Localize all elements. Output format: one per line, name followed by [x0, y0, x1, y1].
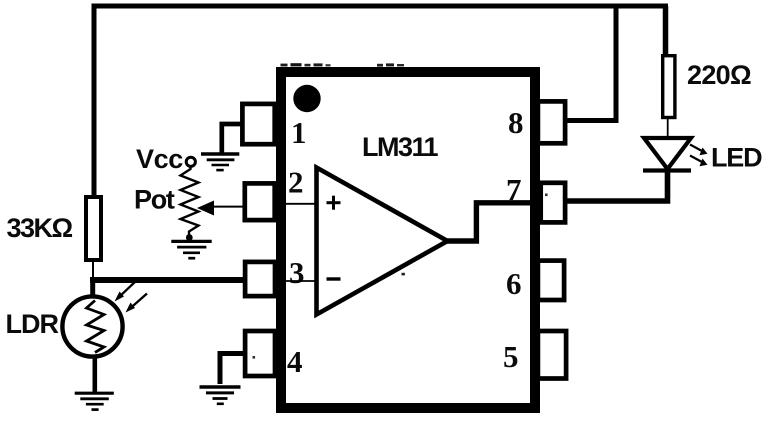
wire: pin 1 to ground — [222, 124, 243, 153]
op-amp comparator triangle — [317, 168, 448, 315]
pin 1 stub — [242, 104, 274, 144]
svg-text:3: 3 — [289, 255, 305, 290]
LDR light arrow 2 — [126, 294, 148, 313]
pin 5 stub — [538, 331, 566, 379]
svg-text:LM311: LM311 — [362, 132, 439, 162]
wire: LED cathode down and left to pin 7 — [566, 171, 668, 201]
pin 2 stub — [245, 183, 275, 220]
pin 7 stub — [541, 183, 565, 223]
speck inside pin 7 stub — [545, 194, 548, 197]
wire: R2 bottom to LED anode — [667, 117, 669, 138]
LED light arrow 1 — [690, 145, 708, 156]
svg-text:5: 5 — [503, 339, 519, 374]
svg-text:Vcc: Vcc — [136, 144, 183, 174]
LDR zigzag element — [87, 301, 105, 353]
wire: pin 2 to op-amp non-inverting input — [286, 203, 317, 205]
ground: at pin 1 — [201, 154, 239, 170]
svg-text:4: 4 — [287, 344, 303, 379]
LED D1 triangle — [644, 138, 691, 169]
svg-text:2: 2 — [288, 165, 304, 200]
svg-text:Pot: Pot — [134, 185, 175, 215]
potentiometer RV1 zigzag — [181, 167, 199, 237]
Vcc terminal circle — [186, 157, 195, 166]
wire: pin 3 to op-amp inverting input — [286, 280, 317, 282]
LED light arrow 2 — [690, 156, 708, 167]
wire: op-amp output to pin 7 — [446, 203, 532, 241]
LED cathode bar — [643, 168, 691, 172]
svg-text:220Ω: 220Ω — [687, 60, 751, 90]
wire: wiper to pin 2 — [212, 206, 243, 208]
wire: LDR bottom to ground — [93, 355, 98, 392]
speck inside IC — [402, 273, 405, 276]
node: pot bottom dot — [186, 234, 193, 241]
pin 3 stub — [245, 262, 275, 296]
svg-text:6: 6 — [506, 266, 522, 301]
ground: below LDR — [75, 393, 114, 409]
op-amp minus input mark — [327, 277, 341, 280]
pin 8 stub — [538, 101, 565, 143]
resistor R2 220 ohm — [663, 56, 675, 118]
LDR light arrow 1 — [115, 281, 137, 302]
wire: drop from top rail to pin 8 — [565, 6, 616, 121]
pin 4 stub — [245, 331, 275, 376]
LDR photoresistor body — [62, 296, 122, 356]
scan noise specks above IC top edge — [281, 63, 405, 66]
pin 1 index dot — [293, 85, 320, 112]
svg-text:LDR: LDR — [6, 309, 59, 339]
wire: node A down to LDR — [90, 277, 95, 301]
node A junction wire to pin 3 — [90, 277, 243, 283]
svg-text:LED: LED — [711, 143, 762, 173]
svg-text:33KΩ: 33KΩ — [7, 213, 73, 243]
resistor R1 33K ohm — [86, 197, 101, 260]
wire: drop from top rail to R2 (220 ohm) — [663, 6, 669, 56]
svg-text:1: 1 — [291, 115, 307, 150]
potentiometer wiper arrow — [197, 201, 214, 216]
wire: top rail from R1 top to right side — [94, 6, 668, 196]
ground: below potentiometer — [171, 241, 211, 258]
wire: pin 4 to ground — [220, 354, 244, 385]
ground: at pin 4 — [200, 387, 241, 404]
svg-text:8: 8 — [508, 105, 524, 140]
op-amp plus input mark — [327, 196, 341, 210]
op-amp U1 LM311 package body — [281, 72, 535, 408]
speck inside pin 4 stub — [253, 356, 256, 359]
wire: R1 bottom to node A — [92, 260, 94, 279]
pin 6 stub — [538, 261, 564, 300]
